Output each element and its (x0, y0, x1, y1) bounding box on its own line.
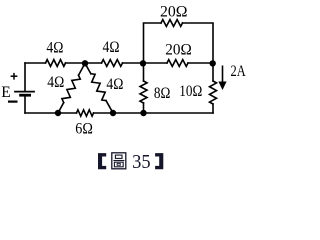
svg-text:4Ω: 4Ω (106, 76, 123, 93)
svg-text:35: 35 (132, 151, 151, 173)
svg-text:4Ω: 4Ω (103, 39, 120, 56)
svg-text:4Ω: 4Ω (46, 40, 63, 57)
svg-text:20Ω: 20Ω (165, 42, 192, 59)
svg-text:6Ω: 6Ω (75, 120, 93, 137)
svg-text:2A: 2A (231, 63, 247, 80)
svg-text:E: E (1, 84, 10, 101)
svg-text:20Ω: 20Ω (160, 3, 188, 20)
svg-text:8Ω: 8Ω (154, 85, 171, 102)
svg-text:10Ω: 10Ω (179, 83, 202, 100)
svg-text:4Ω: 4Ω (47, 74, 64, 91)
